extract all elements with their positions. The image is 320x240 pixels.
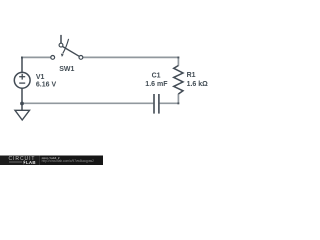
svg-text:V1: V1 (36, 74, 45, 81)
V1 top lead (21, 57, 23, 72)
node corner top-right (177, 57, 179, 59)
svg-text:http://circuitlab.com/c/97vw8u: http://circuitlab.com/c/97vw8uoqpas2 (42, 159, 94, 163)
wire net B: SW1 right terminal to R1 top (83, 57, 178, 65)
svg-text:1.6 mF: 1.6 mF (145, 81, 168, 88)
svg-text:R1: R1 (187, 72, 196, 79)
switch SW1 (51, 35, 83, 59)
node corner V1 top (21, 57, 23, 59)
svg-text:1.6 kΩ: 1.6 kΩ (187, 81, 209, 88)
wire net D: C1 left plate to V1 bottom junction (22, 102, 153, 104)
svg-text:6.16 V: 6.16 V (36, 82, 57, 89)
C1 right plate (158, 94, 160, 114)
SW1 left terminal (51, 56, 55, 60)
watermark logo LAB (9, 161, 22, 163)
watermark bar (0, 156, 103, 166)
svg-text:LAB: LAB (26, 160, 36, 165)
svg-text:C1: C1 (152, 73, 161, 80)
wire net C: R1 bottom to C1 right plate (160, 94, 179, 104)
ground (15, 103, 30, 120)
SW1 right terminal (79, 56, 83, 60)
capacitor C1 (154, 94, 159, 114)
junction node at V1 bottom / ground (20, 102, 24, 106)
V1 minus (19, 82, 25, 84)
SW1 actuator arrow (63, 39, 69, 54)
SW1 lever (63, 47, 80, 57)
SW1 top terminal (59, 43, 63, 47)
ground triangle (15, 110, 30, 120)
V1 body circle (14, 72, 30, 88)
V1 plus (19, 76, 25, 78)
resistor R1 (174, 66, 183, 95)
voltage source V1 (14, 57, 30, 103)
V1 bottom lead (21, 88, 23, 103)
ground stem (21, 103, 23, 110)
wire net A: V1 top terminal to SW1 left terminal (22, 56, 51, 58)
node corner bottom-right (177, 102, 179, 104)
C1 left plate (153, 94, 155, 114)
SW1 top throw stub (60, 35, 62, 43)
svg-text:SW1: SW1 (59, 66, 74, 73)
